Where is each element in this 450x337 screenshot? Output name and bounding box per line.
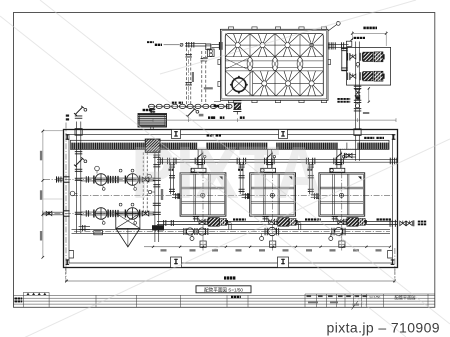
bottom overall dimension text — [224, 276, 226, 279]
labels under top wall centre — [207, 134, 209, 136]
outside pipe end cap — [413, 220, 415, 226]
incoming pipe label top-left — [147, 41, 149, 43]
waste hopper with cross bracing — [116, 213, 140, 228]
riser B depth label — [204, 87, 213, 89]
pump room equipment box — [94, 231, 103, 235]
tank inlet label — [203, 57, 208, 59]
column I-beam top-right — [392, 134, 396, 135]
pump P4 vent — [131, 203, 134, 206]
tank internal grid lines — [225, 34, 323, 96]
header junction row2 — [75, 211, 83, 214]
tank T1 drain box — [200, 241, 206, 247]
floor drain 3 — [147, 174, 151, 178]
svg-text:S=1/50: S=1/50 — [369, 296, 380, 300]
riser symbol north outside wall — [75, 107, 82, 114]
louver connector to wall — [150, 127, 152, 130]
riser flange inside — [75, 150, 83, 153]
trench band gaps at risers — [198, 141, 207, 149]
label above wall near riser — [199, 114, 204, 117]
tank T1 underdrain valve and blower — [193, 216, 228, 226]
labels under top wall right — [364, 137, 366, 139]
feed pipe flange at ladder — [159, 157, 162, 164]
east wall pipe sleeve flanges — [389, 220, 392, 227]
filter tank T2 — [250, 173, 296, 216]
discharge riser gauge — [355, 104, 359, 108]
tank T3 top riser from trench — [330, 149, 345, 172]
riser A flanges — [185, 53, 192, 56]
outside valve 2 — [406, 221, 412, 226]
riser flange above wall — [75, 115, 83, 118]
tank inlet pipe — [212, 43, 221, 45]
labels above discharge pipe — [233, 218, 235, 220]
tank T2 drain funnel circle — [260, 237, 264, 241]
discharge manifold riser — [355, 42, 357, 130]
left dimension texts — [40, 151, 42, 161]
booster pump unit 1 valve — [346, 53, 349, 61]
building inner wall line — [69, 134, 392, 263]
pump row 2 wall sleeve — [63, 210, 70, 211]
roof duct shaft (dark hatched box) — [145, 139, 160, 152]
title block strip — [14, 295, 435, 307]
tank T1 label — [169, 169, 171, 171]
booster pump unit 2 motor — [374, 71, 383, 81]
tank outlet elbow cluster — [340, 42, 343, 49]
feed pipe wall sleeve flange right — [389, 158, 392, 165]
riser wall sleeve — [75, 129, 82, 136]
riser A bottom elbow symbol — [187, 109, 194, 116]
tank row centerline axis — [72, 195, 392, 197]
tank outlet label — [354, 37, 356, 39]
pilaster bottom wall x176 — [171, 257, 182, 268]
pump row 1 centerline — [44, 179, 155, 181]
pump row 1 wall sleeve — [63, 176, 70, 177]
incoming pipe corner box — [206, 44, 211, 50]
tank roof star panels top row — [225, 34, 323, 57]
riser A size label — [192, 72, 194, 82]
tank T3 underdrain valve and blower — [332, 216, 367, 226]
leader line — [164, 44, 180, 46]
victaulic coupling chain pipe — [148, 104, 232, 108]
duct drop dashed lines — [142, 152, 144, 213]
pump P1 — [93, 174, 109, 191]
tank inlet fittings — [208, 49, 215, 57]
pump P2 vent — [131, 169, 134, 172]
wall step bottom-right — [388, 251, 393, 259]
chain labels — [172, 102, 174, 104]
dimension labels y117 — [208, 116, 210, 119]
pump dimension label — [363, 27, 365, 30]
discharge riser reducer — [355, 96, 360, 100]
pump row 2 mid flanges — [85, 210, 88, 217]
pilaster top wall x283 — [279, 130, 288, 139]
booster pump unit 2 valve — [346, 73, 349, 81]
floor drain 2 — [70, 191, 75, 196]
header bottom elbow — [152, 225, 164, 230]
right wall centerline axis — [394, 248, 396, 282]
incoming pipe y45 — [185, 43, 206, 45]
tank T1 drain funnel circle — [190, 237, 194, 241]
drawing title box — [196, 286, 251, 293]
pump P2 — [125, 174, 141, 191]
ventilation louver above wall — [138, 114, 167, 128]
booster pump base enclosure — [347, 47, 391, 85]
pressure gauge between pumps — [356, 63, 360, 67]
suction manifold — [342, 48, 347, 71]
row2 outside stub with valve — [43, 211, 64, 213]
pump P1 vent — [119, 169, 122, 172]
pump P3 — [93, 208, 109, 225]
header gauge circle — [148, 190, 151, 193]
column I-beam bottom-right — [391, 259, 395, 260]
feed header pipe y161 — [157, 159, 397, 161]
tank manhole — [232, 78, 246, 92]
pump suction pipe row 2 — [81, 211, 155, 213]
tank bay dimension labels — [161, 249, 167, 251]
title block right section — [305, 294, 435, 307]
tank T3 drain funnel circle — [329, 237, 333, 241]
tank T1 feed drop pipe — [169, 162, 180, 199]
wall step bottom-left — [69, 251, 74, 259]
tank T2 feed drop pipe — [239, 162, 250, 199]
column I-beam top-left — [66, 134, 70, 135]
tank corner leader with circle — [328, 25, 337, 31]
incoming riser pipe A (dashed) — [186, 48, 188, 108]
booster pump unit 2 body — [359, 72, 362, 80]
bottom overall dimension line — [67, 280, 395, 282]
underground dimension line y120 — [153, 119, 396, 121]
incoming riser pipe B (dashed) — [201, 51, 203, 104]
filter tank T3 — [319, 173, 365, 216]
tank bottom-left dim extension — [214, 101, 221, 103]
riser symbol inside — [75, 159, 82, 166]
tank outlet east pipe — [328, 43, 349, 45]
floor drain 1 — [95, 166, 100, 171]
discharge riser valve below enclosure — [354, 85, 362, 88]
bottom main pipe — [72, 229, 391, 231]
tank outlet drop to chain — [233, 99, 241, 102]
tank T2 label — [238, 169, 240, 171]
svg-text:pixta.jp – 710909: pixta.jp – 710909 — [327, 320, 440, 336]
filter tank T1 — [180, 173, 226, 216]
tank manhole cell cross — [225, 71, 252, 96]
feed pipe tee flanges at tank drops — [166, 158, 169, 165]
main pipe strainer circles tank1 — [186, 228, 193, 235]
tank T3 drain box — [339, 241, 345, 247]
pump P4 — [125, 208, 141, 225]
tank T2 drain box — [270, 241, 276, 247]
svg-text:PIXTA: PIXTA — [131, 131, 323, 214]
pump suction pipe row 1 — [81, 177, 155, 179]
pump dimension line — [352, 32, 386, 34]
tank shell tabs — [218, 27, 331, 103]
discharge riser wall sleeve — [354, 129, 361, 136]
discharge riser inside tee valve — [355, 135, 357, 161]
tank T2 underdrain valve and blower — [263, 216, 298, 226]
booster pump unit 1 motor — [374, 52, 383, 62]
header size label — [161, 189, 163, 200]
outside valve 1 — [400, 221, 406, 226]
pilaster top wall x176 — [172, 130, 181, 139]
svg-text:配管平面図: 配管平面図 — [395, 294, 416, 301]
title block right header texts — [307, 295, 312, 297]
chain flange right — [225, 104, 228, 110]
main pipe strainer circle tank3 — [335, 228, 343, 236]
pump P3 vent — [119, 203, 122, 206]
discharge riser dim — [368, 88, 370, 101]
chain left elbow down to louver — [150, 109, 155, 110]
riser tag marks — [66, 115, 69, 117]
left wall centerline axis — [65, 123, 67, 282]
riser bottom elbow to main pipe — [79, 226, 90, 228]
pump suction header riser pipe — [75, 122, 77, 234]
pipe A flanges left of tank1 — [162, 220, 165, 226]
tank T3 label — [307, 169, 309, 171]
tank center walkway ovals — [225, 57, 303, 70]
cable/pipe trench band along top wall — [71, 140, 390, 149]
discharge riser labels — [337, 98, 339, 100]
header junction row1 — [75, 177, 83, 180]
approval slash — [352, 301, 359, 310]
left dimension line — [42, 131, 44, 257]
louver label text — [143, 109, 145, 111]
building outer wall — [64, 130, 398, 268]
note label — [15, 298, 17, 300]
riser B flanges — [201, 57, 208, 60]
leader fitting — [180, 43, 183, 46]
pump row 1 valve — [142, 177, 149, 182]
tank T1 vertical axis — [202, 152, 204, 251]
project name cell label — [231, 296, 233, 298]
waste hopper discharge cone — [116, 228, 140, 247]
left dim connector — [43, 130, 63, 132]
main pipe strainer circle tank2 — [268, 227, 276, 235]
tank T2 discharge elbow to main — [297, 223, 299, 229]
pump row 2 centerline — [44, 213, 155, 215]
tank T1 discharge elbow to main — [228, 223, 230, 229]
revision table header — [23, 291, 49, 293]
tank T2 top riser from trench — [261, 149, 276, 172]
outside pipe label — [418, 221, 420, 223]
pump row 2 valve — [142, 211, 149, 216]
vertical distribution header at x157 — [154, 151, 156, 243]
tank T3 feed drop pipe — [308, 162, 319, 199]
pump row 1 mid flanges — [85, 176, 88, 183]
svg-text:配管平面図 S=1/50: 配管平面図 S=1/50 — [204, 286, 243, 293]
booster pump unit 1 body — [359, 53, 362, 61]
row1 outside stub cap — [57, 177, 64, 179]
column I-beam bottom-left — [66, 259, 70, 260]
pilaster bottom wall x283 — [278, 257, 289, 268]
tank T1 top riser from trench — [191, 149, 206, 172]
tank T3 vertical axis — [341, 152, 343, 251]
elevated tank outer shell — [220, 29, 328, 100]
tank T2 vertical axis — [272, 152, 274, 251]
tank bay dimension line — [144, 246, 390, 248]
discharge pipe to east wall — [157, 221, 398, 223]
tank inlet west flange — [219, 42, 220, 50]
tank roof star panels bottom row — [253, 71, 324, 96]
